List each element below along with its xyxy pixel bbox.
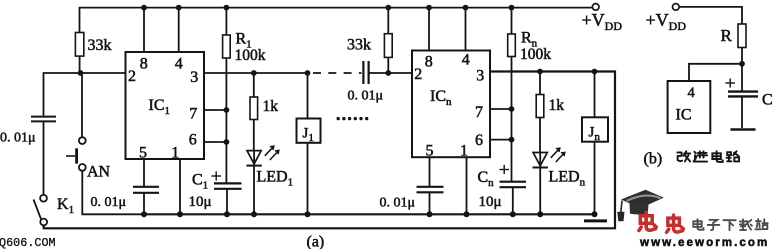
svg-text:4: 4 bbox=[688, 85, 696, 101]
junction Rn rail bbox=[509, 5, 515, 11]
wire to 1k n bbox=[539, 72, 541, 95]
plus sign C bbox=[726, 82, 736, 84]
wire AN column from node A bbox=[81, 73, 83, 137]
svg-text:1k: 1k bbox=[263, 98, 279, 115]
capacitor 0.01u far left bbox=[31, 116, 56, 118]
wire pin 6 IC1 bbox=[204, 141, 226, 143]
junction pin1 bus bbox=[177, 211, 183, 217]
svg-text:2: 2 bbox=[128, 68, 136, 85]
capacitor 0.01u under pin5 ICn bbox=[417, 186, 444, 188]
svg-text:8: 8 bbox=[140, 56, 148, 73]
svg-text:1k: 1k bbox=[549, 97, 565, 114]
svg-text:IC: IC bbox=[676, 107, 692, 124]
ground symbol b bbox=[731, 128, 756, 131]
svg-text:10μ: 10μ bbox=[479, 194, 502, 210]
svg-text:0. 01μ: 0. 01μ bbox=[380, 196, 416, 211]
junction pin6 bbox=[224, 139, 230, 145]
resistor Rn 100k bbox=[508, 34, 516, 57]
wire rail to 33k right bbox=[387, 8, 389, 34]
relay J1 bbox=[297, 119, 321, 143]
wire node to C bbox=[741, 64, 743, 91]
wire 33k bottom to node A bbox=[79, 56, 81, 73]
wire coupling cap to ICn pin 2 bbox=[369, 72, 412, 74]
switch K1 bbox=[40, 195, 47, 202]
junction node b bbox=[739, 61, 745, 67]
resistor R1 100k bbox=[223, 35, 231, 58]
svg-text:LEDn: LEDn bbox=[549, 169, 586, 189]
junction pin7 bbox=[224, 107, 230, 113]
svg-text:+VDD: +VDD bbox=[582, 10, 623, 33]
LEDn light arrows bbox=[551, 148, 565, 162]
svg-text:IC1: IC1 bbox=[149, 97, 171, 117]
LED1 diode bbox=[247, 151, 261, 164]
junction LEDn bus bbox=[537, 211, 543, 217]
svg-text:3: 3 bbox=[190, 69, 198, 86]
wire pin 3 ICn output bbox=[490, 71, 615, 73]
wire AN bottom to ground bus bbox=[82, 171, 144, 215]
svg-text:100k: 100k bbox=[520, 46, 551, 63]
wire top VDD rail bbox=[80, 8, 593, 33]
wire pin 6 ICn bbox=[490, 139, 512, 141]
resistor R bbox=[738, 24, 746, 48]
wire pin 4 ICn to rail bbox=[465, 8, 467, 51]
ground symbol bbox=[584, 219, 607, 222]
wire 1k to LED1 bbox=[253, 120, 255, 151]
wire to 1k bbox=[253, 73, 255, 97]
LEDn diode bbox=[533, 153, 547, 166]
wire rail to R1 bbox=[225, 8, 227, 35]
wire pin 7 IC1 bbox=[204, 109, 226, 111]
svg-text:2: 2 bbox=[414, 66, 422, 83]
capacitor 0.01u under pin5 IC1 bbox=[133, 186, 159, 188]
junction LED1 bus bbox=[251, 211, 257, 217]
junction pin8 ICn rail bbox=[426, 5, 432, 11]
wire pin 5 ICn down bbox=[429, 157, 431, 187]
wire pin 1 ICn to bus bbox=[466, 157, 468, 214]
IC box b bbox=[668, 81, 711, 133]
resistor 33k (left) bbox=[75, 33, 83, 57]
junction 1k n branch bbox=[537, 69, 543, 75]
svg-text:5: 5 bbox=[139, 145, 147, 162]
svg-text:100k: 100k bbox=[235, 47, 266, 64]
svg-text:R: R bbox=[721, 26, 733, 45]
capacitor C bbox=[728, 90, 758, 92]
wire pin 5 IC1 down bbox=[143, 159, 145, 187]
terminal +VDD circuit b bbox=[673, 4, 680, 11]
op-amp IC1 box bbox=[126, 52, 205, 159]
junction C1 bus bbox=[224, 211, 230, 217]
capacitor 0.01u coupling bbox=[362, 61, 364, 84]
resistor 33k (right) bbox=[384, 34, 392, 58]
svg-text:(b): (b) bbox=[644, 151, 663, 168]
wire pin 8 to rail bbox=[143, 8, 145, 52]
junction J1 bus bbox=[305, 211, 311, 217]
wire node A left and down to C0 bbox=[44, 73, 81, 116]
junction pin2 node bbox=[385, 70, 391, 76]
LED1 light arrows bbox=[265, 146, 279, 160]
ground bus bbox=[144, 213, 595, 215]
wire 33k right to pin2 node bbox=[387, 57, 389, 73]
svg-text:(a): (a) bbox=[307, 234, 325, 249]
svg-text:7: 7 bbox=[189, 106, 197, 123]
junction pin4 rail bbox=[176, 5, 182, 11]
junction Jn branch bbox=[592, 69, 598, 75]
junction 1k branch bbox=[251, 70, 257, 76]
svg-text:C1: C1 bbox=[192, 172, 208, 192]
label gai jin dian lu bbox=[677, 151, 739, 162]
junction pin4 ICn rail bbox=[463, 5, 469, 11]
junction R1 rail bbox=[224, 5, 230, 11]
wire to J1 bbox=[307, 73, 309, 119]
wire to Jn bbox=[594, 72, 596, 118]
op-amp ICn box bbox=[412, 51, 490, 158]
svg-text:33k: 33k bbox=[88, 37, 112, 54]
svg-text:0. 01μ: 0. 01μ bbox=[348, 89, 384, 104]
svg-text:4: 4 bbox=[175, 56, 183, 73]
wire R to node bbox=[741, 48, 743, 64]
logo graduation cap bbox=[617, 190, 664, 222]
svg-text:3: 3 bbox=[476, 68, 484, 85]
svg-text:7: 7 bbox=[475, 104, 483, 121]
wire pin 3 IC1 output bbox=[204, 72, 308, 74]
junction Jn bus bbox=[592, 211, 598, 217]
svg-text:Jn: Jn bbox=[589, 125, 601, 144]
wire Cn to bus bbox=[512, 187, 514, 214]
wire R1 down through pins 7 6 to C1 bbox=[225, 58, 227, 183]
svg-text:K1: K1 bbox=[57, 196, 74, 216]
wire Jn to bus bbox=[594, 142, 596, 215]
svg-text:www.eeworm.com: www.eeworm.com bbox=[639, 236, 769, 249]
svg-text:AN: AN bbox=[87, 164, 111, 181]
svg-text:C: C bbox=[762, 92, 773, 109]
svg-text:+VDD: +VDD bbox=[646, 10, 687, 33]
junction cap1 bus bbox=[141, 211, 147, 217]
node A junction bbox=[78, 70, 84, 76]
junction 33k right rail bbox=[385, 5, 391, 11]
junction pin8 rail bbox=[141, 5, 147, 11]
wire VDD b to R bbox=[679, 7, 742, 24]
pushbutton AN bbox=[79, 137, 86, 144]
svg-text:1: 1 bbox=[460, 143, 468, 160]
svg-text:6: 6 bbox=[189, 132, 197, 149]
svg-text:10μ: 10μ bbox=[189, 194, 212, 210]
plus sign C1 bbox=[212, 175, 222, 177]
logo chong chong red bbox=[639, 213, 683, 233]
wire C to ground bbox=[741, 96, 743, 128]
wire node A to IC1 pin 2 bbox=[81, 72, 126, 74]
logo dian zi xia zai zhan gray bbox=[693, 219, 768, 230]
wire LEDn to bus bbox=[539, 168, 541, 215]
svg-text:Q606.COM: Q606.COM bbox=[0, 236, 56, 249]
wire cap to bus bbox=[429, 192, 431, 214]
svg-text:LED1: LED1 bbox=[257, 169, 294, 189]
capacitor C1 10u bbox=[214, 182, 242, 184]
capacitor Cn 10u bbox=[500, 181, 527, 183]
wire pin 1 IC1 to bus bbox=[179, 159, 181, 214]
wire dashed continuation bbox=[313, 72, 362, 74]
svg-text:0. 01μ: 0. 01μ bbox=[91, 195, 127, 210]
svg-text:6: 6 bbox=[475, 132, 483, 149]
wire pin 8 ICn to rail bbox=[428, 8, 430, 51]
junction Cn bus bbox=[510, 211, 516, 217]
wire J1 to bus bbox=[307, 143, 309, 215]
wire pin 4 to rail bbox=[178, 8, 180, 52]
junction pin7 ICn bbox=[509, 106, 515, 112]
wire LED1 to bus bbox=[253, 166, 255, 215]
svg-text:0. 01μ: 0. 01μ bbox=[0, 131, 36, 146]
wire K1 to bottom rail bbox=[44, 72, 615, 229]
svg-text:ICn: ICn bbox=[430, 88, 452, 108]
wire C1 to bus bbox=[226, 189, 228, 215]
svg-text:Cn: Cn bbox=[478, 169, 495, 189]
junction pin6 ICn bbox=[509, 137, 515, 143]
wire Rn down through pins 7 6 to Cn bbox=[511, 57, 513, 182]
plus sign Cn bbox=[500, 169, 510, 171]
junction pin1 ICn bus bbox=[464, 211, 470, 217]
svg-text:1: 1 bbox=[171, 145, 179, 162]
svg-text:33k: 33k bbox=[347, 37, 371, 54]
wire C0 to K1 bbox=[43, 121, 45, 194]
svg-text:J1: J1 bbox=[303, 126, 314, 145]
terminal +VDD circuit a bbox=[592, 4, 599, 11]
wire 1k to LEDn bbox=[539, 118, 541, 153]
svg-text:5: 5 bbox=[426, 143, 434, 160]
junction cap ICn bus bbox=[427, 211, 433, 217]
resistor 1k (right) bbox=[536, 95, 544, 118]
svg-text:4: 4 bbox=[462, 52, 470, 69]
wire node to IC pin4 bbox=[689, 64, 742, 81]
wire cap to bus bbox=[143, 193, 145, 215]
junction J1 branch bbox=[305, 70, 311, 76]
svg-text:8: 8 bbox=[425, 54, 433, 71]
wire pin 7 ICn bbox=[490, 108, 512, 110]
relay Jn bbox=[582, 117, 608, 141]
wire rail to Rn bbox=[511, 8, 513, 34]
dots ellipsis bbox=[337, 117, 369, 120]
resistor 1k (left) bbox=[250, 97, 258, 120]
